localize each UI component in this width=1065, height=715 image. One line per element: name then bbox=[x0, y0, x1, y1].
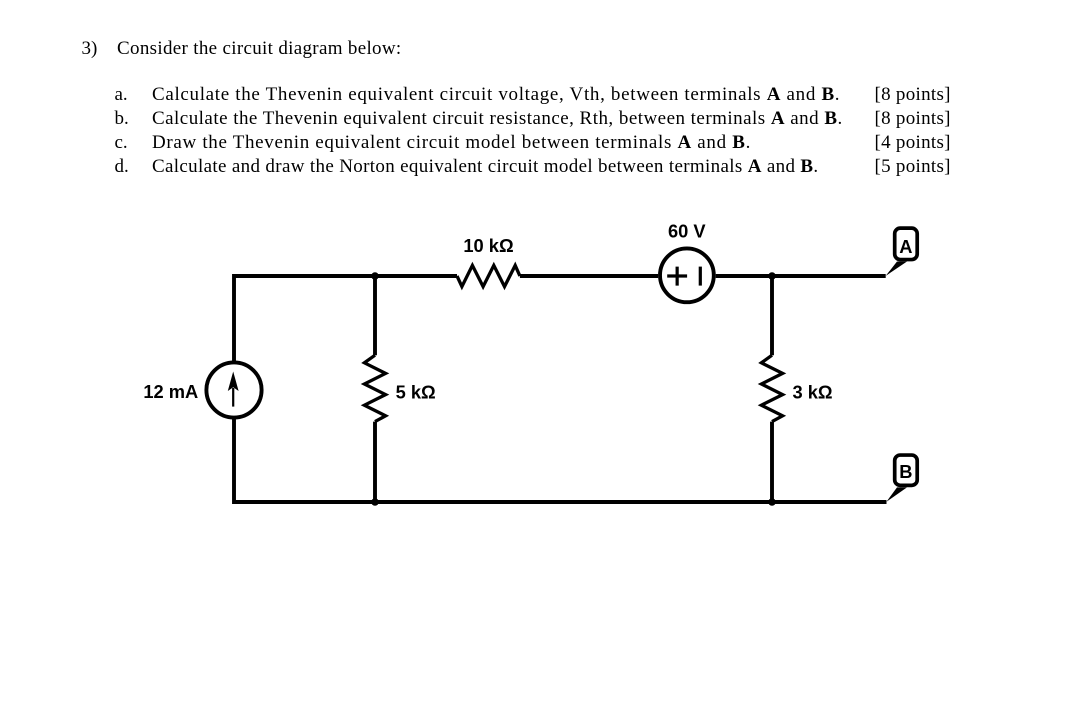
terminal A callout box bbox=[895, 228, 918, 259]
wire: 3k branch lower lead bbox=[770, 422, 774, 502]
svg-text:[4 points]: [4 points] bbox=[874, 132, 950, 153]
svg-text:[8 points]: [8 points] bbox=[874, 108, 950, 129]
resistor 3 kOhm (vertical zigzag) bbox=[761, 355, 782, 421]
current source arrow shaft bbox=[232, 388, 234, 407]
svg-text:[5 points]: [5 points] bbox=[874, 156, 950, 177]
svg-text:60 V: 60 V bbox=[668, 221, 706, 242]
wire: 3k branch upper lead bbox=[770, 276, 774, 355]
terminal B callout tail bbox=[887, 487, 908, 501]
svg-text:B: B bbox=[899, 461, 912, 482]
wire: top wire between 60V source and right node bbox=[716, 274, 886, 278]
current source arrow head bbox=[228, 372, 239, 392]
svg-text:A: A bbox=[899, 236, 912, 257]
svg-text:3 kΩ: 3 kΩ bbox=[793, 382, 833, 403]
terminal B callout box bbox=[895, 455, 918, 485]
svg-text:b.: b. bbox=[115, 108, 129, 129]
svg-text:[8 points]: [8 points] bbox=[874, 84, 950, 105]
svg-text:Calculate the Thevenin equival: Calculate the Thevenin equivalent circui… bbox=[152, 108, 843, 129]
current source 12 mA (circle) bbox=[206, 362, 261, 417]
svg-text:Calculate the Thevenin equival: Calculate the Thevenin equivalent circui… bbox=[152, 84, 840, 105]
node: bottom junction of 5k branch bbox=[371, 498, 379, 506]
node: top junction of 3k branch bbox=[768, 272, 776, 280]
svg-text:10 kΩ: 10 kΩ bbox=[463, 235, 513, 256]
svg-text:5 kΩ: 5 kΩ bbox=[396, 382, 436, 403]
wire: top-left corner (top wire left segment + left rail upper part) bbox=[234, 276, 457, 361]
voltage source 60 V (circle) bbox=[660, 248, 714, 302]
svg-text:Calculate and draw the Norton: Calculate and draw the Norton equivalent… bbox=[152, 156, 819, 177]
svg-text:3): 3) bbox=[82, 38, 98, 59]
wire: left rail lower part + whole bottom wire bbox=[234, 419, 887, 502]
svg-text:a.: a. bbox=[115, 84, 128, 105]
voltage source minus bar bbox=[699, 267, 702, 286]
svg-text:d.: d. bbox=[115, 156, 129, 177]
wire: 5k branch upper lead bbox=[373, 276, 377, 355]
node: top junction of 5k branch bbox=[371, 272, 379, 280]
terminal A callout tail bbox=[886, 262, 907, 276]
svg-text:12 mA: 12 mA bbox=[143, 381, 198, 402]
svg-text:c.: c. bbox=[115, 132, 128, 153]
svg-text:Draw the Thevenin equivalent c: Draw the Thevenin equivalent circuit mod… bbox=[152, 132, 751, 153]
wire: top wire between 10k resistor and 60V source bbox=[520, 274, 658, 278]
resistor 5 kOhm (vertical zigzag) bbox=[364, 355, 385, 421]
resistor 10 kOhm (horizontal zigzag) bbox=[457, 265, 520, 286]
svg-text:Consider the circuit diagram b: Consider the circuit diagram below: bbox=[117, 38, 402, 59]
node: bottom junction of 3k branch bbox=[768, 498, 776, 506]
wire: 5k branch lower lead bbox=[373, 422, 377, 502]
voltage source plus sign bbox=[667, 267, 687, 286]
